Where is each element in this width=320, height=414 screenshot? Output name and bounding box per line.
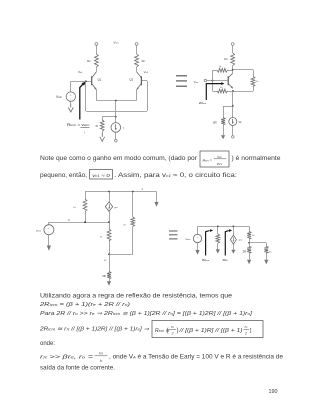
svg-text:gmv: gmv [114, 207, 118, 209]
dependent source gm*vpi [109, 192, 111, 202]
svg-text:I: I [123, 126, 124, 130]
node e junction (reflected) [248, 242, 250, 244]
ground (2R) [221, 135, 225, 139]
svg-text:rπ >> βre, ro =: rπ >> βre, ro = [40, 354, 93, 360]
wire emitter down [232, 91, 234, 106]
ground (r_pi reflected) [216, 249, 220, 253]
svg-text:IC: IC [100, 359, 103, 363]
svg-text:): ) [177, 328, 179, 334]
svg-text:−: − [48, 231, 50, 234]
node rail-ro junction [132, 191, 134, 193]
resistor re (small-signal) [109, 222, 111, 229]
resistor r_pi (small-signal) [85, 192, 87, 200]
wire Vcc to Rc right [136, 45, 138, 54]
resistor 2R (small-signal) [109, 254, 111, 271]
ground (2R small-signal) [107, 281, 111, 286]
svg-text:gmv: gmv [239, 239, 243, 241]
svg-text:ro: ro [269, 250, 272, 254]
node Vcc terminal right [135, 43, 138, 46]
svg-text:2R: 2R [243, 250, 247, 254]
svg-text:Utilizando agora a regra de re: Utilizando agora a regra de reflexão de … [40, 294, 233, 300]
wire Vcc to Rc left [96, 45, 98, 54]
svg-text:ro: ro [256, 79, 259, 83]
transistor Q2 [137, 72, 142, 78]
svg-text:c: c [142, 187, 144, 191]
svg-text:2: 2 [244, 332, 247, 336]
resistor Rc (right) [135, 54, 139, 67]
svg-text:Acm =: Acm = [202, 158, 213, 162]
wire Rc to Q2 collector [136, 67, 138, 72]
voltage source vicm (small-signal) [48, 222, 50, 225]
ground (2R reflected) [247, 260, 251, 265]
node terminal below I/2 [232, 136, 235, 139]
svg-text:RC: RC [87, 59, 91, 63]
wire e to ro (reflected) [249, 242, 266, 244]
node base junction [85, 80, 87, 82]
svg-text:VA: VA [99, 351, 103, 355]
svg-text:VCC: VCC [114, 41, 120, 45]
wire base return (to Q2 base) [85, 81, 87, 111]
wire Q1 emitter down [96, 90, 98, 101]
svg-text:rπ: rπ [73, 205, 76, 209]
svg-text:re: re [100, 234, 103, 238]
bold arrow 2Ricm into base [206, 84, 221, 100]
node emitters junction [115, 100, 117, 102]
equivalence symbol [169, 230, 178, 232]
svg-text:]: ] [250, 328, 252, 334]
svg-text:−: − [70, 98, 72, 101]
resistor re (reflected) [249, 226, 251, 231]
svg-text:vicm: vicm [217, 162, 222, 166]
voltage source Vicm [70, 81, 72, 92]
wire to R [102, 116, 116, 118]
svg-text:(: ( [167, 328, 169, 334]
node collector junction [232, 69, 234, 71]
svg-text:Para 2R // ro >> re ⇒ 2Ricm ≅: Para 2R // ro >> re ⇒ 2Ricm ≅ (β + 1)[2R… [40, 311, 253, 317]
bold arrow 2Ricm (reflected) [206, 231, 210, 256]
ground (Vicm source) [70, 101, 72, 107]
svg-text:2R: 2R [102, 274, 106, 278]
transistor Q (half circuit) [228, 73, 233, 77]
svg-text:saída da fonte de corrente.: saída da fonte de corrente. [40, 366, 115, 372]
resistor Rc (left) [95, 54, 99, 67]
svg-text:Q1: Q1 [98, 78, 102, 82]
svg-text:2Ricm: 2Ricm [202, 258, 210, 262]
ground (vicm reflected) [197, 243, 199, 250]
wire top rail (reflected) [198, 226, 250, 228]
svg-text:rμ: rμ [219, 64, 221, 68]
transistor Q1 [92, 72, 97, 78]
resistor 2R (half circuit) [221, 118, 225, 126]
svg-text:Note que como o ganho em modo: Note que como o ganho em modo comum, (da… [40, 156, 197, 162]
svg-text:+: + [197, 236, 199, 239]
svg-text:ro: ro [124, 222, 127, 226]
resistor ro (small-signal) [131, 217, 135, 226]
wire emitter node down [115, 101, 117, 117]
ground stub right of rail [156, 192, 158, 203]
current source I [115, 117, 117, 123]
svg-text:vc1 ≈ 0: vc1 ≈ 0 [92, 173, 110, 179]
svg-text:Vo1: Vo1 [78, 70, 83, 74]
wire Rc to collector [232, 66, 234, 74]
wire vicm to base [207, 80, 229, 82]
svg-text:Vicm: Vicm [194, 80, 199, 84]
svg-text:i: i [84, 130, 85, 134]
bold arrow Ricm looking into base [80, 84, 84, 120]
wire node-b line [49, 222, 109, 224]
wire collector to ro [233, 69, 253, 71]
svg-text:ro: ro [245, 325, 248, 329]
node b junction (source) [108, 221, 110, 223]
svg-text:2Ricm ≅ rπ // [(β + 1)2R] // [: 2Ricm ≅ rπ // [(β + 1)2R] // [(β + 1)re]… [39, 327, 150, 333]
node rail-diamond junction [108, 191, 110, 193]
resistor 2R (reflected) [249, 243, 251, 247]
wire Rc to Q1 collector [96, 67, 98, 72]
node rail junction source [233, 226, 235, 228]
svg-text:2Ricm = (β + 1)(re + 2R // ro): 2Ricm = (β + 1)(re + 2R // ro) [39, 302, 131, 308]
node Vcc terminal (half circuit) [231, 43, 234, 46]
dependent source (reflected) [233, 226, 235, 235]
resistor r_pi (base-emitter) [212, 81, 214, 92]
current source I/2 [232, 106, 234, 118]
svg-text:2Ricm: 2Ricm [199, 101, 207, 105]
bold arrow 2Ro (reflected) [225, 231, 229, 256]
svg-text:b: b [68, 218, 70, 222]
node b junction (r_pi) [84, 221, 86, 223]
svg-text:// [(β + 1)R] // [(β + 1): // [(β + 1)R] // [(β + 1) [178, 328, 243, 334]
svg-text:Vo2: Vo2 [144, 70, 149, 74]
wire Q2 emitter down [136, 90, 138, 101]
svg-text:) é normalmente: ) é normalmente [232, 156, 282, 162]
svg-text:pequeno, então,: pequeno, então, [40, 173, 87, 179]
resistor r_pi (reflected) [217, 226, 219, 234]
wire to Rc [232, 45, 234, 53]
svg-text:e: e [104, 258, 106, 262]
svg-text:, onde VA é a Tensão de Early: , onde VA é a Tensão de Early = 100 V e … [109, 354, 284, 360]
svg-text:RC: RC [142, 59, 146, 63]
svg-text:vicm: vicm [36, 229, 41, 233]
node tail junction [115, 116, 117, 118]
wire top rail [85, 191, 157, 193]
ground (ro reflected) [264, 260, 268, 265]
svg-text:vc1: vc1 [217, 155, 222, 159]
ground (R) [101, 133, 103, 137]
node rail junction r_pi [217, 226, 219, 228]
resistor R (tail) [100, 120, 104, 131]
ground (dependent source) [231, 250, 235, 254]
wire to 2R [223, 106, 233, 108]
svg-text:+: + [48, 227, 50, 230]
resistor ro (collector-emitter) [251, 77, 255, 87]
node emitter junction [232, 90, 234, 92]
svg-text:2R: 2R [213, 121, 218, 125]
resistor Rc (half circuit) [231, 53, 235, 66]
wire emitter rail [96, 100, 136, 102]
node Vcc terminal left [95, 43, 98, 46]
svg-text:re: re [252, 233, 255, 237]
ground (vicm small-signal) [48, 235, 50, 246]
svg-text:Q2: Q2 [129, 78, 133, 82]
resistor ro (reflected) [264, 246, 268, 253]
svg-text:2Ro: 2Ro [223, 258, 229, 262]
node emitter-tail junction [232, 105, 234, 107]
node terminal below I [115, 139, 118, 142]
svg-text:R: R [96, 124, 99, 128]
svg-text:rπ: rπ [220, 85, 223, 89]
svg-text:+: + [70, 94, 72, 97]
svg-text:Vicm: Vicm [56, 95, 62, 99]
svg-text:. Assim, para vc1 ≈ 0, o circu: . Assim, para vc1 ≈ 0, o circuito fica: [114, 173, 237, 179]
svg-text:Ricm = vicm: Ricm = vicm [67, 123, 90, 127]
svg-text:190: 190 [269, 389, 278, 395]
svg-text:onde:: onde: [40, 341, 55, 347]
node e junction [108, 253, 110, 255]
svg-text:RC: RC [224, 57, 228, 61]
wire e to ro [109, 254, 133, 256]
svg-text:rπ: rπ [171, 325, 174, 329]
node input junction [212, 80, 214, 82]
svg-text:I/2: I/2 [239, 120, 242, 124]
wire base Q1 [71, 81, 92, 83]
equivalence symbol [176, 75, 187, 77]
svg-text:2: 2 [171, 332, 174, 336]
svg-text:vicm: vicm [185, 237, 190, 241]
resistor r_mu (base-collector) [212, 70, 214, 80]
